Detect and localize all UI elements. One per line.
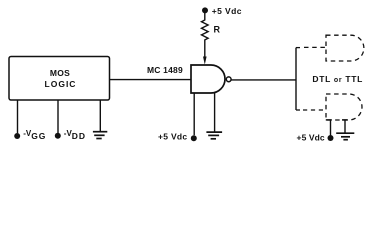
terminal dot VGG	[14, 133, 20, 139]
MOS LOGIC box U1	[9, 57, 110, 101]
wire MOS box to gate input	[110, 79, 192, 81]
output wire to DTL/TTL bus	[231, 79, 296, 81]
svg-text:R: R	[214, 25, 221, 35]
svg-text:MOS: MOS	[50, 68, 70, 78]
wire gate to ground (middle)	[214, 93, 216, 132]
wire lower gate to ground	[344, 120, 346, 133]
ground pin cap (lower gate)	[342, 119, 348, 121]
terminal dot VDD	[55, 133, 61, 139]
ground symbol (middle)	[206, 132, 222, 139]
wire lower gate to +5 Vdc	[330, 120, 332, 135]
wire gate to +5 Vdc (bottom middle)	[193, 93, 195, 135]
wire to ground (MOS box)	[99, 100, 101, 132]
svg-text:+5 Vdc: +5 Vdc	[158, 132, 187, 142]
svg-text:+5 Vdc: +5 Vdc	[212, 6, 242, 16]
label MOS LOGIC	[45, 68, 77, 89]
lower dashed gate (DTL/TTL)	[326, 94, 362, 120]
dashed branch to upper gate	[296, 47, 300, 49]
terminal dot +5 Vdc (right)	[328, 135, 334, 141]
+5 Vdc supply dot (top)	[202, 7, 208, 13]
ground symbol (right)	[336, 133, 354, 140]
NAND gate U2 (MC1489)	[191, 65, 225, 93]
svg-text:MC 1489: MC 1489	[147, 65, 183, 75]
wire VDD	[57, 100, 59, 133]
resistor R	[202, 13, 209, 57]
svg-text:+5 Vdc: +5 Vdc	[297, 133, 325, 143]
power pin cap (lower gate +5)	[326, 119, 332, 121]
ground symbol (MOS box)	[93, 132, 107, 139]
arrowhead into gate	[203, 57, 207, 65]
output bubble	[226, 77, 231, 82]
dashed branch to lower gate	[296, 109, 300, 111]
upper dashed gate (DTL/TTL)	[326, 35, 364, 61]
bus vertical wire	[295, 48, 297, 110]
terminal dot +5 Vdc (bottom middle)	[191, 135, 197, 141]
wire VGG	[17, 100, 19, 133]
svg-text:LOGIC: LOGIC	[45, 79, 77, 89]
